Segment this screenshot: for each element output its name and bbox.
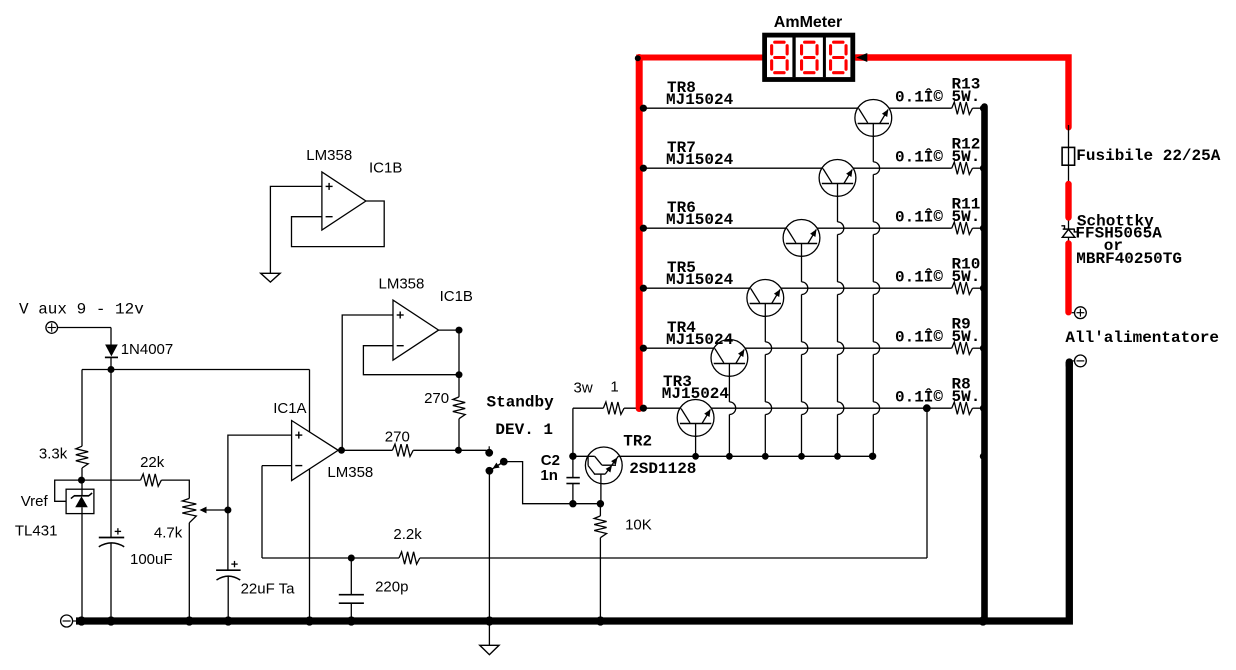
svg-text:100uF: 100uF	[130, 551, 173, 568]
capacitor C2	[566, 456, 579, 503]
resistor R9 0.1ohm	[952, 342, 973, 354]
label TR8	[667, 79, 696, 97]
wire R12 to rail	[973, 167, 982, 169]
label TR5	[667, 259, 696, 277]
svg-text:0.1Î©: 0.1Î©	[895, 147, 943, 166]
wire TR2 emitter drop	[600, 474, 602, 504]
label R10	[952, 255, 981, 273]
wire R10 to rail	[973, 287, 982, 289]
label TR3	[663, 373, 692, 391]
wire IC1B2 + input	[342, 315, 393, 450]
node base bus end dot	[869, 453, 876, 460]
node red rail dot TR7	[640, 165, 647, 172]
svg-text:LM358: LM358	[327, 464, 373, 481]
wire 270 to switch	[413, 449, 486, 451]
svg-text:IC1B: IC1B	[440, 288, 473, 305]
label Standby	[487, 394, 555, 412]
resistor 3.3k	[76, 446, 88, 468]
label IC1A	[273, 400, 306, 417]
wire 22k to pot	[161, 480, 189, 498]
wire red left rail	[636, 58, 643, 409]
wire fuse/diode column	[1068, 125, 1070, 245]
label 5W. (R13)	[952, 88, 981, 106]
potentiometer wiper arrow	[200, 507, 228, 514]
svg-text:LM358: LM358	[306, 147, 352, 164]
resistor R11 0.1ohm	[952, 222, 973, 234]
label MJ15024 (TR6)	[666, 211, 734, 229]
label 5W. (R11)	[952, 208, 981, 226]
label IC1B (second)	[440, 288, 473, 305]
wire to 1ohm resistor	[573, 407, 603, 409]
label C2	[541, 452, 560, 469]
wire switch ground drop	[488, 471, 490, 646]
node black rail dot (456)	[980, 453, 987, 460]
wire 270v to junction	[458, 419, 460, 451]
svg-text:Standby: Standby	[487, 394, 555, 412]
wire red top left	[636, 55, 764, 61]
label 0.1ohm (R10)	[895, 267, 943, 286]
resistor 270 vertical	[453, 397, 465, 419]
wire TL431 cathode	[81, 480, 83, 496]
label 0.1ohm (R11)	[895, 207, 943, 226]
node red rail dot TR3	[640, 405, 647, 412]
switch lower dot	[486, 467, 494, 475]
label 22k	[140, 454, 165, 471]
wire IC1B2 output drop	[458, 330, 460, 397]
svg-text:10K: 10K	[625, 517, 652, 534]
wire supply horizontal	[82, 369, 310, 371]
svg-text:IC1B: IC1B	[369, 159, 402, 176]
transistor TR7 MJ15024	[819, 160, 856, 197]
resistor 270 horizontal	[392, 444, 413, 456]
label 2.2k	[393, 526, 422, 543]
label 1N4007	[121, 341, 174, 358]
label TR7	[667, 139, 696, 157]
wire row TR3 left	[643, 407, 681, 409]
transistor TR4 MJ15024	[711, 340, 748, 377]
wire IC1B2 feedback loop	[363, 346, 459, 375]
wire ground bottom rail	[76, 362, 1069, 621]
wire row TR3 right	[711, 407, 952, 409]
ground symbol (IC1B1)	[261, 273, 280, 282]
svg-text:0.1Î©: 0.1Î©	[895, 387, 943, 406]
node V aux 9 - 12v label	[19, 301, 144, 319]
wire base column TR3	[695, 424, 697, 457]
node black rail dot TR6	[980, 225, 987, 232]
svg-text:0.1Î©: 0.1Î©	[895, 267, 943, 286]
wire base column TR5	[765, 304, 771, 457]
switch pole dot	[500, 458, 508, 466]
label R11	[952, 195, 981, 213]
wire Vaux to diode	[58, 328, 111, 345]
svg-text:5W.: 5W.	[952, 148, 981, 166]
wire IC1A - feedback drop	[261, 466, 263, 558]
TL431 box	[66, 489, 94, 513]
node red rail dot TR4	[640, 345, 647, 352]
svg-text:22k: 22k	[140, 454, 165, 471]
svg-text:MJ15024: MJ15024	[666, 151, 734, 169]
svg-text:270: 270	[385, 429, 410, 446]
svg-text:22uF Ta: 22uF Ta	[241, 581, 296, 598]
label 3.3k	[39, 446, 68, 463]
resistor 2.2k	[399, 552, 420, 564]
label 0.1ohm (R13)	[895, 87, 943, 106]
potentiometer 4.7k body	[182, 498, 196, 522]
terminal - (All'alimentatore)	[1073, 355, 1087, 367]
node base bus dot TR4	[726, 453, 733, 460]
switch contact tick	[488, 446, 490, 449]
wire IC1B1 + input	[270, 186, 322, 273]
label 270 (vertical)	[424, 390, 449, 407]
node base bus dot TR5	[762, 453, 769, 460]
terminal + (All'alimentatore)	[1072, 307, 1087, 319]
node C2 top dot	[569, 453, 576, 460]
svg-text:MJ15024: MJ15024	[666, 271, 734, 289]
node black rail dot TR4	[980, 345, 987, 352]
wire 22k line	[82, 479, 141, 481]
op-amp IC1B (second)	[393, 300, 439, 360]
wire pot to rail	[188, 523, 190, 621]
transistor TR5 MJ15024	[747, 280, 784, 317]
fuse Fusibile 22/25A	[1062, 147, 1075, 165]
wire R9 to rail	[973, 347, 982, 349]
svg-text:0.1Î©: 0.1Î©	[895, 87, 943, 106]
node red corner dot	[635, 55, 641, 61]
svg-text:2SD1128: 2SD1128	[629, 460, 696, 478]
wire diode to node A	[110, 357, 112, 369]
node base bus dot TR7	[834, 453, 841, 460]
wire base column TR4	[729, 364, 735, 457]
node 10K top dot	[597, 500, 604, 507]
wire TR2 base	[573, 455, 595, 457]
svg-text:1n: 1n	[540, 467, 558, 484]
node rail dot x=81.5	[77, 616, 86, 625]
wire supply down to rail (behind IC1A)	[309, 370, 311, 622]
label 1n	[540, 467, 558, 484]
svg-text:5W.: 5W.	[952, 268, 981, 286]
wire base column TR7	[838, 184, 844, 457]
wire base column TR6	[802, 244, 808, 457]
label R13	[952, 75, 981, 93]
resistor R10 0.1ohm	[952, 282, 973, 294]
label FFSH5065A	[1075, 225, 1162, 243]
label TR2	[623, 432, 652, 450]
wire IC1A output	[338, 449, 392, 451]
label R8	[952, 375, 971, 393]
label R9	[952, 315, 971, 333]
node feedback junction dot (R8 row)	[923, 404, 931, 412]
label AmMeter	[774, 14, 842, 31]
resistor R12 0.1ohm	[952, 162, 973, 174]
svg-text:MJ15024: MJ15024	[666, 91, 734, 109]
label R12	[952, 135, 981, 153]
svg-text:LM358: LM358	[379, 275, 425, 292]
wire row TR5 left	[643, 287, 750, 289]
svg-text:TR2: TR2	[623, 432, 652, 450]
resistor 1 ohm 3w	[603, 402, 624, 414]
label 100uF	[130, 551, 173, 568]
ammeter display frame	[765, 35, 853, 79]
node black rail dot TR5	[980, 285, 987, 292]
label 10K	[625, 517, 652, 534]
label DEV. 1	[495, 421, 553, 439]
wire row TR4 left	[643, 347, 715, 349]
label 2SD1128	[629, 460, 696, 478]
svg-text:MJ15024: MJ15024	[666, 211, 734, 229]
svg-text:220p: 220p	[375, 578, 408, 595]
label 0.1ohm (R12)	[895, 147, 943, 166]
label 5W. (R10)	[952, 268, 981, 286]
node rail dot x=189.3	[185, 616, 194, 625]
TL431 Vref loop wire	[55, 480, 82, 501]
svg-text:MBRF40250TG: MBRF40250TG	[1076, 250, 1182, 268]
label TR6	[667, 199, 696, 217]
svg-text:5W.: 5W.	[952, 388, 981, 406]
node rail dot x=983	[978, 616, 987, 625]
terminal + (V aux)	[46, 322, 58, 334]
node IC1B2 feedback dot	[456, 371, 463, 378]
wire red mid segment	[1065, 184, 1071, 218]
svg-text:3w: 3w	[574, 379, 593, 396]
terminal - (ground)	[61, 615, 77, 627]
label 270 (horizontal)	[385, 429, 410, 446]
label Vref	[21, 493, 49, 510]
svg-text:0.1Î©: 0.1Î©	[895, 327, 943, 346]
label Schottky	[1077, 213, 1154, 231]
wire IC1A - input	[262, 465, 292, 467]
wire base column TR8	[873, 124, 879, 457]
node wiper junction dot	[224, 507, 231, 514]
node base bus dot TR3	[692, 453, 699, 460]
wire 22uF node to IC1A +	[228, 435, 292, 510]
node switch-rail dot	[485, 616, 494, 625]
transistor TR8 MJ15024	[855, 100, 892, 137]
node black rail dot TR3	[980, 405, 987, 412]
node IC1B2 output dot	[456, 327, 463, 334]
node Vref junction dot	[78, 477, 85, 484]
node black rail dot TR7	[980, 165, 987, 172]
svg-text:270: 270	[424, 390, 449, 407]
wire R8 to rail	[973, 407, 982, 409]
wire 2.2k line left	[262, 557, 399, 559]
svg-text:AmMeter: AmMeter	[774, 14, 842, 31]
svg-text:1N4007: 1N4007	[121, 341, 174, 358]
svg-text:All'alimentatore: All'alimentatore	[1065, 329, 1219, 347]
node rail dot x=309.5	[305, 616, 314, 625]
label or	[1104, 237, 1123, 255]
wire 3.3k to TL431 node	[81, 468, 83, 480]
node IC1A output dot	[338, 447, 345, 454]
wire row TR7 left	[643, 167, 823, 169]
capacitor 100uF	[99, 370, 124, 622]
ammeter current arrow	[856, 53, 867, 62]
label MBRF40250TG	[1076, 250, 1182, 268]
wire row TR7 right	[853, 167, 952, 169]
wire 2.2k line right	[420, 557, 927, 559]
svg-text:V aux 9 - 12v: V aux 9 - 12v	[19, 301, 144, 319]
wire R11 to rail	[973, 227, 982, 229]
label IC1B (top)	[369, 159, 402, 176]
label All'alimentatore	[1065, 329, 1219, 347]
label 5W. (R12)	[952, 148, 981, 166]
node red rail dot TR8	[640, 105, 647, 112]
op-amp IC1B (top)	[322, 172, 366, 230]
label TR4	[667, 319, 696, 337]
svg-text:TL431: TL431	[15, 523, 58, 540]
svg-text:MJ15024: MJ15024	[666, 331, 734, 349]
label Fusibile 22/25A	[1076, 147, 1220, 165]
svg-text:Fusibile 22/25A: Fusibile 22/25A	[1076, 147, 1220, 165]
svg-text:2.2k: 2.2k	[393, 526, 422, 543]
node black rail dot TR8	[980, 105, 987, 112]
label 0.1ohm (R8)	[895, 387, 943, 406]
transistor TR2 2SD1128	[585, 447, 622, 484]
ammeter digits 888	[772, 42, 846, 72]
wire row TR8 left	[643, 107, 858, 109]
label MJ15024 (TR8)	[666, 91, 734, 109]
node C2 bottom dot	[569, 500, 576, 507]
node rail dot x=111	[106, 616, 115, 625]
label LM358 (IC1B second)	[379, 275, 425, 292]
wire feedback rise to R8 row	[926, 408, 928, 558]
wire TL431 anode to rail	[81, 507, 83, 621]
label 1 (resistor value)	[610, 378, 618, 395]
label MJ15024 (TR7)	[666, 151, 734, 169]
wire row TR5 right	[781, 287, 952, 289]
label 5W. (R8)	[952, 388, 981, 406]
svg-text:1: 1	[610, 378, 618, 395]
transistor TR6 MJ15024	[783, 220, 820, 257]
node A junction dot	[108, 366, 115, 373]
wire to 10K	[599, 504, 601, 516]
svg-text:5W.: 5W.	[952, 88, 981, 106]
capacitor 220p	[339, 558, 364, 621]
op-amp IC1A	[292, 421, 339, 481]
switch lever	[489, 462, 503, 471]
switch contact dot	[485, 449, 493, 457]
wire switch to TR2 emitter line	[504, 462, 601, 504]
wire row TR6 right	[817, 227, 952, 229]
label LM358 (IC1B top)	[306, 147, 352, 164]
wire black right rail	[981, 107, 988, 622]
label 220p	[375, 578, 408, 595]
svg-text:5W.: 5W.	[952, 208, 981, 226]
svg-text:0.1Î©: 0.1Î©	[895, 207, 943, 226]
wire IC1B1 output + feedback loop	[292, 201, 385, 247]
diode schottky	[1061, 226, 1077, 238]
label 5W. (R9)	[952, 328, 981, 346]
wire left drop to 3.3k	[81, 370, 83, 447]
label 4.7k	[154, 525, 183, 542]
wire red top right + right drop	[856, 58, 1069, 128]
wire 1ohm to red rail	[624, 407, 643, 409]
wire TR2 collector bus	[618, 455, 872, 457]
label MJ15024 (TR3)	[662, 385, 730, 403]
node rail dot x=351.3	[347, 616, 356, 625]
label 0.1ohm (R9)	[895, 327, 943, 346]
node 270/270 junction dot	[455, 447, 462, 454]
svg-text:Vref: Vref	[21, 493, 49, 510]
svg-text:4.7k: 4.7k	[154, 525, 183, 542]
node base bus dot TR6	[798, 453, 805, 460]
node rail dot x=228.2	[224, 616, 233, 625]
ground symbol (bottom)	[480, 645, 499, 654]
svg-text:IC1A: IC1A	[273, 400, 306, 417]
svg-text:3.3k: 3.3k	[39, 446, 68, 463]
node red rail dot TR5	[640, 285, 647, 292]
wire R13 to rail	[973, 107, 982, 109]
resistor 10K	[594, 516, 606, 538]
svg-text:5W.: 5W.	[952, 328, 981, 346]
resistor R8 0.1ohm	[952, 402, 973, 414]
svg-text:DEV. 1: DEV. 1	[495, 421, 553, 439]
label MJ15024 (TR4)	[666, 331, 734, 349]
svg-text:MJ15024: MJ15024	[662, 385, 730, 403]
label 3w	[574, 379, 593, 396]
label MJ15024 (TR5)	[666, 271, 734, 289]
label TL431	[15, 523, 58, 540]
wire red bottom segment	[1065, 244, 1071, 313]
node 10K-rail dot	[596, 616, 605, 625]
node 220p junction dot	[348, 555, 355, 562]
capacitor 22uF Ta	[216, 510, 241, 621]
node red rail dot TR6	[640, 225, 647, 232]
wire C2 column up	[572, 408, 574, 456]
label 22uF Ta	[241, 581, 296, 598]
resistor 22k	[141, 474, 162, 486]
wire row TR4 right	[745, 347, 952, 349]
wire IC1B2 output	[439, 329, 459, 331]
TL431 zener symbol	[71, 493, 92, 507]
wire row TR6 left	[643, 227, 787, 229]
transistor TR3 MJ15024	[677, 400, 714, 437]
resistor R13 0.1ohm	[952, 102, 973, 114]
wire 10K to rail	[599, 538, 601, 621]
diode D1 1N4007	[105, 345, 118, 358]
wire row TR8 right	[889, 107, 952, 109]
label LM358 (IC1A)	[327, 464, 373, 481]
